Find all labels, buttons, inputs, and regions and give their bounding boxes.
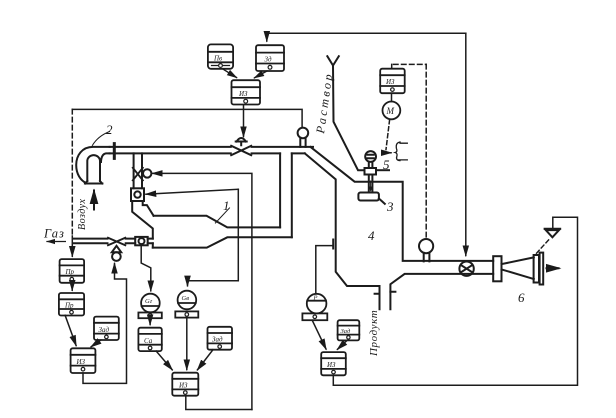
wire: arrow into PR1 bbox=[71, 236, 73, 256]
wire: dashed top link from U2 box bbox=[392, 64, 427, 68]
vessel roof outer + right wall + outlet duct top bbox=[311, 147, 494, 261]
burner air nozzle (pill) bbox=[85, 155, 103, 183]
gas valve actuator (triangle+circle) bbox=[112, 246, 121, 261]
svg-text:ИЗ: ИЗ bbox=[178, 382, 188, 390]
svg-text:6: 6 bbox=[518, 290, 525, 305]
svg-text:ИЗ: ИЗ bbox=[326, 361, 336, 369]
controller box U2 (top right) bbox=[380, 69, 405, 94]
gas control valve bbox=[108, 238, 125, 245]
controller box IZ-left bbox=[71, 348, 96, 373]
svg-text:Пр: Пр bbox=[64, 302, 74, 310]
solution inlet fork bbox=[327, 56, 339, 65]
wire: IZ-right output to funnel riser bbox=[333, 217, 577, 385]
svg-text:4: 4 bbox=[368, 228, 375, 243]
wire: controller U1 output down to main valve bbox=[243, 105, 245, 137]
motor M bbox=[383, 102, 401, 120]
control valve actuator (diaphragm) bbox=[236, 138, 247, 145]
product outlet right + outlet duct bottom bbox=[390, 274, 493, 309]
svg-text:М: М bbox=[386, 106, 395, 116]
svg-text:Gг: Gг bbox=[145, 298, 153, 305]
product outlet ticks bbox=[375, 292, 396, 294]
label 1 leader line bbox=[215, 208, 229, 223]
setter box Zad-right bbox=[338, 320, 360, 340]
gas flow arrow under label bbox=[47, 241, 65, 243]
wire: PR1 to PR2 bbox=[71, 283, 73, 290]
wire: motor M dashed link to atomizer bbox=[386, 120, 390, 150]
wire: Zad-right to IZ-right diagonal bbox=[338, 340, 348, 349]
wire: Gg sensor to Ca box bbox=[149, 318, 151, 324]
wire: P sensor to IZ-right diagonal bbox=[312, 320, 326, 349]
main air/gas mixture pipe (double line) bbox=[110, 147, 313, 154]
ratio box Ca bbox=[138, 328, 161, 351]
atomizer shaft bbox=[369, 175, 373, 192]
svg-text:Зд: Зд bbox=[265, 56, 273, 64]
mech brace bbox=[395, 142, 400, 161]
controller box IZ-right bbox=[321, 352, 346, 375]
duct regulating valve bbox=[459, 262, 473, 276]
ratio controller box IZ-center bbox=[172, 373, 198, 396]
level float bbox=[419, 239, 433, 261]
wire: U2 box to motor M bbox=[391, 93, 393, 101]
svg-text:Раствор: Раствор bbox=[313, 71, 336, 135]
svg-text:Зад: Зад bbox=[99, 326, 110, 334]
svg-text:ИЗ: ИЗ bbox=[385, 78, 395, 86]
setter box Zad-left bbox=[94, 317, 119, 340]
wire: right riser down to duct valve bbox=[465, 33, 467, 255]
gas inlet pipe (double line) bbox=[74, 239, 153, 244]
svg-text:Зад: Зад bbox=[212, 336, 223, 344]
wire: top setpoint run from right riser to box Zd2 bbox=[267, 33, 466, 41]
svg-text:2: 2 bbox=[106, 122, 113, 137]
wire: branch line to left dashed drop and ball fitting bbox=[72, 109, 302, 127]
label 2 leader line bbox=[92, 132, 109, 146]
wire: air line actuator to riser x252 bbox=[153, 173, 252, 409]
atomizer 5 stem bbox=[369, 162, 373, 168]
ejector suction dashed line bbox=[537, 239, 550, 254]
wire: dashed level line to float bbox=[425, 64, 427, 238]
instrument box PV (top left) bbox=[208, 44, 233, 68]
wire: air orifice down to sensor Gv bbox=[188, 189, 239, 285]
wire: vessel pressure tap to sensor P bbox=[316, 246, 333, 294]
svg-text:3: 3 bbox=[386, 199, 394, 214]
air orifice (square w/ circle) on riser bbox=[131, 188, 144, 201]
shaft arrow bbox=[370, 181, 372, 188]
svg-text:ИЗ: ИЗ bbox=[76, 358, 86, 366]
gas riser double line bbox=[132, 153, 153, 238]
sensor P (pressure) bbox=[302, 294, 327, 320]
wire: IZ-left output to gas valve actuator bbox=[83, 264, 127, 384]
svg-text:Зад: Зад bbox=[341, 328, 351, 335]
furnace 1 outline bottom bbox=[153, 237, 292, 247]
ball fitting on main pipe bbox=[298, 128, 309, 147]
furnace 1 outline top bbox=[154, 216, 281, 228]
wire: air orifice line (arrow into orifice) bbox=[146, 189, 238, 194]
burner 2 outer curve bbox=[76, 147, 109, 183]
brace ticks bbox=[399, 143, 408, 160]
atmosphere funnel bbox=[545, 229, 561, 238]
ejector 6 exit plates bbox=[534, 253, 544, 285]
svg-text:Пр: Пр bbox=[65, 268, 75, 276]
instrument box PR2 (left column) bbox=[59, 293, 84, 316]
furnace left closure bbox=[152, 243, 154, 247]
svg-text:Пв: Пв bbox=[213, 55, 222, 63]
svg-text:Gв: Gв bbox=[182, 295, 190, 302]
svg-text:Газ: Газ bbox=[43, 227, 65, 241]
wire: Ca to IZ-center diagonal bbox=[156, 351, 172, 370]
flange on main pipe bbox=[113, 144, 116, 159]
svg-text:Р: Р bbox=[313, 295, 318, 302]
wire: PR2 to IZ-left diagonal bbox=[65, 315, 76, 345]
wire: Zad-center to IZ-center diagonal bbox=[198, 350, 214, 370]
wire: arrow into mech brace bbox=[385, 152, 392, 154]
wire: Zad-left to IZ-left diagonal bbox=[91, 340, 101, 347]
air butterfly valve on riser bbox=[133, 168, 143, 181]
label 5 leader bbox=[376, 169, 389, 171]
burner 2 inner curve bbox=[101, 153, 110, 162]
atomizer 5 signal head bbox=[365, 151, 376, 162]
controller box U1 bbox=[232, 80, 261, 104]
svg-text:Воздух: Воздух bbox=[77, 199, 88, 230]
wire: IZ-center output bottom run bbox=[186, 396, 252, 410]
control valve on main pipe bbox=[231, 146, 251, 155]
gas orifice sensor (box w/ circle) bbox=[135, 237, 148, 245]
air inlet arrow bbox=[93, 191, 95, 210]
wire: Gv sensor down to IZ-center bbox=[186, 318, 188, 370]
sensor Gg (gas flow) bbox=[138, 294, 161, 319]
sensor Gv (air flow) bbox=[175, 291, 198, 318]
instrument box Zd2 (top) bbox=[256, 45, 284, 71]
furnace outlet duct verticals bbox=[280, 153, 292, 237]
instrument box PR1 (left column) bbox=[60, 259, 85, 283]
air valve actuator circle bbox=[143, 169, 151, 177]
setter box Zad-center bbox=[208, 327, 233, 350]
wire: PV to U1 diagonal bbox=[223, 69, 237, 78]
wire: Zd2 to U1 diagonal bbox=[255, 71, 268, 78]
ejector 6 cone bbox=[502, 257, 534, 279]
wire: dashed drop at left bbox=[71, 109, 73, 236]
solution inlet pipe bbox=[333, 66, 365, 171]
atomizer 5 gland box bbox=[365, 168, 377, 175]
vessel wall nozzle tick bbox=[332, 240, 334, 249]
atomizer disk 3 bbox=[358, 193, 384, 204]
ejector outlet dashed arrow bbox=[547, 267, 560, 269]
svg-text:Са: Са bbox=[144, 337, 153, 345]
wire: gas orifice to sensor Gg bbox=[141, 245, 151, 290]
svg-text:ИЗ: ИЗ bbox=[238, 90, 248, 98]
svg-text:Продукт: Продукт bbox=[368, 310, 380, 357]
ejector 6 inlet flange bbox=[493, 256, 501, 281]
svg-text:5: 5 bbox=[383, 157, 390, 172]
vessel roof inner + left wall + bottom + product outlet left bbox=[305, 153, 380, 309]
